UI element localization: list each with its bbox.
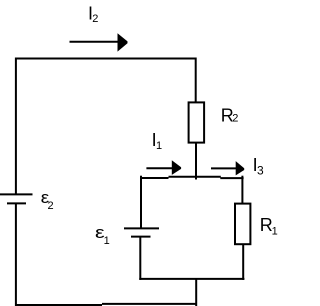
label I3 [253,155,264,178]
wire: bottom right segment to junction stub [102,303,197,305]
svg-text:1: 1 [156,140,162,152]
wire: E1 top lead [140,176,142,229]
svg-text:1: 1 [272,226,278,238]
battery E1 short plate (negative) [131,236,151,238]
battery E2 short plate (negative) [7,202,26,204]
wire: left branch upper + top wire + right drop to R2 [16,59,196,195]
wire: inner loop top, left segment [140,177,169,179]
svg-text:2: 2 [232,113,238,125]
label I2 [88,4,98,26]
wire: inner loop top, right segment [220,177,243,179]
current arrow I3 head [236,161,245,175]
svg-text:2: 2 [92,13,98,25]
resistor R2 body [189,102,205,142]
resistor R1 body [235,204,250,245]
wire: R1 bottom lead [242,244,244,280]
battery E2 long plate (positive) [0,193,33,195]
svg-text:2: 2 [48,200,54,212]
battery E1 long plate (positive) [124,227,159,229]
wire: left branch lower from E2 to bottom-left corner [16,203,102,305]
wire: R1 top lead [241,176,243,204]
wire: R2 bottom lead crossing junction node [195,143,197,180]
svg-text:1: 1 [104,235,110,247]
current arrow I1 shaft [146,167,172,169]
current arrow I3 shaft [211,167,236,169]
label emf E2 [41,188,54,212]
label R1 [260,215,278,237]
current arrow I2 shaft [70,41,120,43]
svg-text:3: 3 [257,164,264,178]
label R2 [221,106,239,126]
current arrow I1 head [172,160,181,175]
current arrow I2 head [118,33,128,51]
label emf E1 [95,223,110,247]
wire: stub joining outer bottom wire to inner loop bottom [195,279,197,306]
wire: inner loop top, middle segment [169,176,221,178]
wire: E1 bottom lead [139,237,141,280]
label I1 [152,130,163,152]
wire: inner loop bottom [139,278,244,280]
